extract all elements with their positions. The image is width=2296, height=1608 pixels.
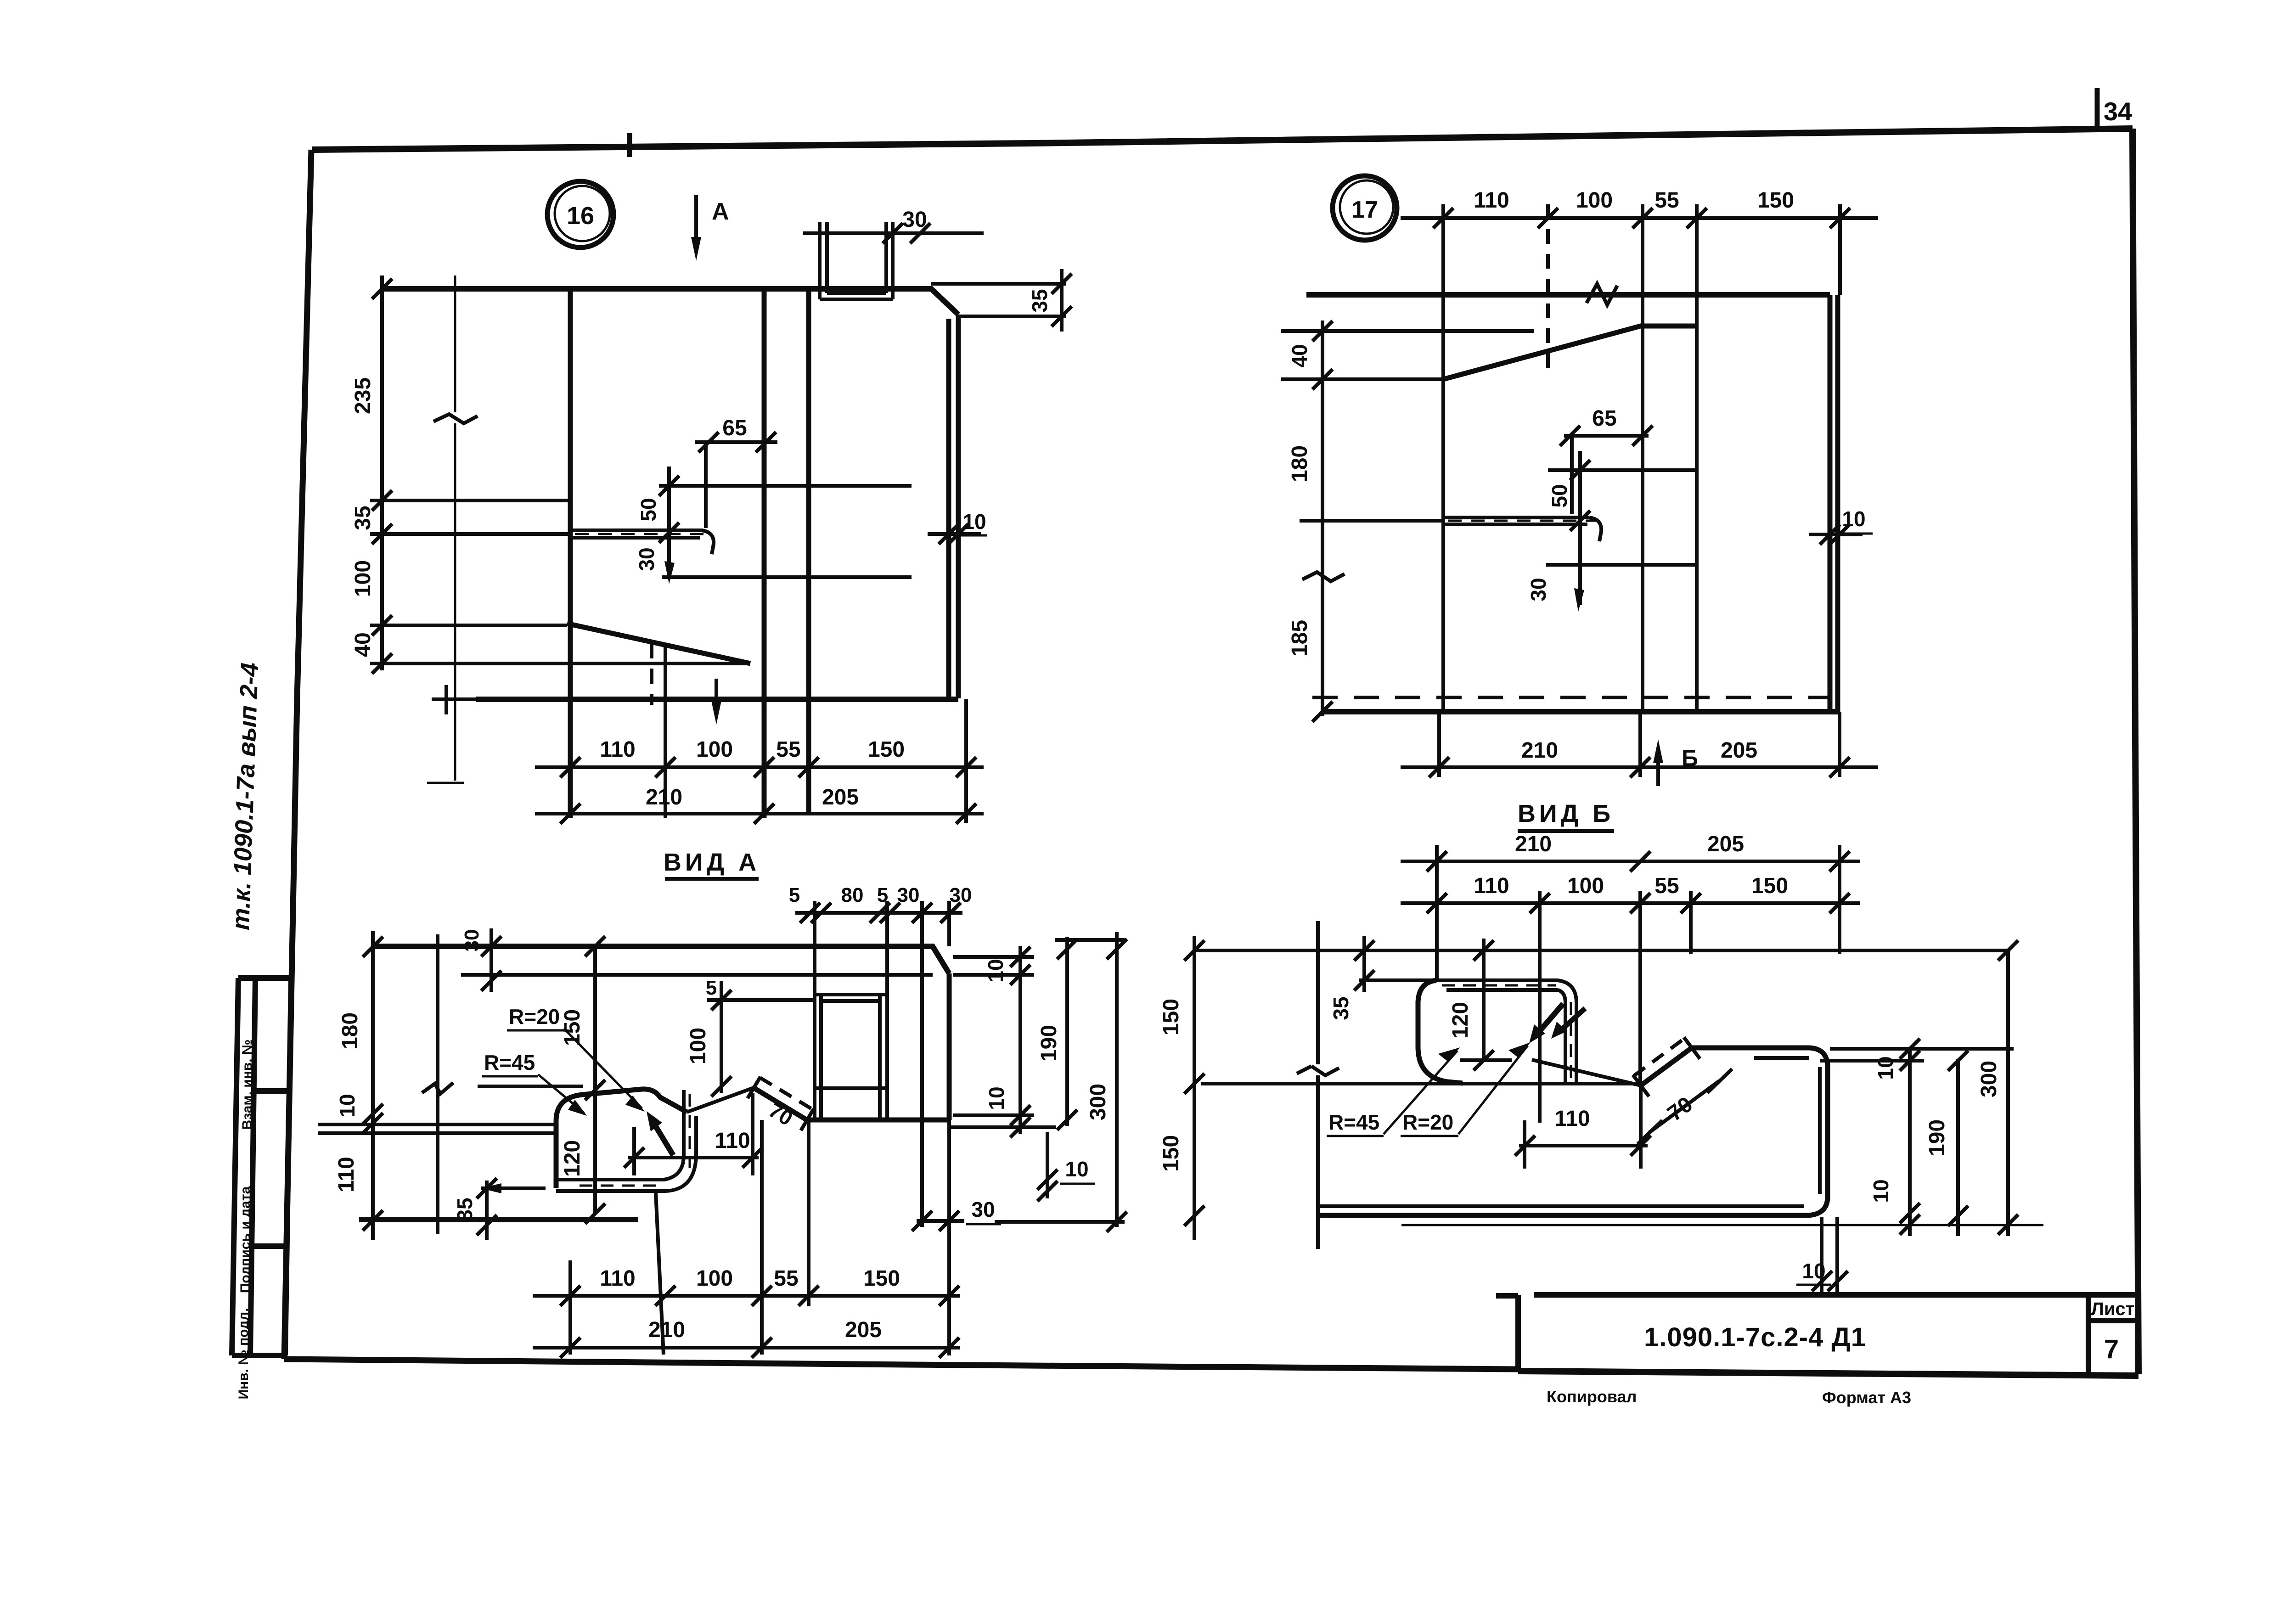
svg-text:65: 65 [722,416,747,440]
svg-text:100: 100 [686,1028,710,1064]
svg-text:ВИД Б: ВИД Б [1518,800,1614,827]
svg-text:10: 10 [1065,1157,1088,1181]
svg-text:100: 100 [696,737,733,762]
svg-text:65: 65 [1592,406,1616,431]
svg-text:110: 110 [600,1266,635,1291]
svg-text:100: 100 [1567,874,1604,898]
svg-text:210: 210 [1521,738,1558,763]
svg-text:55: 55 [1654,874,1679,898]
svg-text:R=45: R=45 [484,1051,535,1074]
svg-text:30: 30 [461,929,483,952]
svg-text:100: 100 [696,1266,733,1291]
svg-text:10: 10 [1869,1179,1893,1203]
svg-text:Копировал: Копировал [1547,1387,1637,1406]
svg-text:40: 40 [1288,344,1311,367]
svg-text:30: 30 [950,884,972,906]
svg-text:Б: Б [1682,745,1698,771]
svg-text:R=20: R=20 [1402,1110,1453,1134]
svg-text:150: 150 [863,1266,900,1291]
svg-text:10: 10 [1802,1259,1825,1283]
svg-text:150: 150 [1757,188,1794,213]
svg-text:16: 16 [567,202,594,230]
svg-text:50: 50 [1548,484,1571,507]
svg-text:10: 10 [985,1086,1008,1110]
svg-text:120: 120 [560,1140,585,1177]
svg-text:30: 30 [971,1198,995,1221]
svg-text:5: 5 [789,884,800,906]
svg-text:1.090.1-7с.2-4 Д1: 1.090.1-7с.2-4 Д1 [1644,1322,1866,1352]
svg-text:Лист: Лист [2091,1299,2135,1319]
svg-text:110: 110 [1474,874,1509,898]
svg-text:110: 110 [334,1157,359,1192]
svg-text:10: 10 [335,1094,359,1117]
svg-text:Взам. инв. №: Взам. инв. № [240,1040,255,1130]
svg-text:55: 55 [1654,188,1679,213]
svg-text:Инв. № подл.: Инв. № подл. [236,1308,251,1399]
svg-text:ВИД А: ВИД А [664,849,760,876]
svg-text:205: 205 [822,785,859,810]
svg-text:100: 100 [351,560,375,597]
svg-text:300: 300 [1977,1061,2001,1097]
svg-text:210: 210 [1515,832,1552,856]
svg-text:35: 35 [453,1198,477,1221]
svg-text:190: 190 [1925,1119,1949,1156]
svg-text:150: 150 [560,1009,585,1046]
svg-text:R=20: R=20 [509,1005,560,1029]
svg-text:40: 40 [351,632,375,657]
svg-text:30: 30 [1526,578,1550,601]
svg-text:190: 190 [1037,1025,1061,1062]
svg-text:10: 10 [962,510,986,534]
svg-text:50: 50 [636,498,660,521]
svg-text:205: 205 [1721,738,1757,763]
svg-text:205: 205 [1707,832,1744,856]
svg-text:180: 180 [338,1012,362,1049]
svg-text:55: 55 [774,1266,798,1291]
svg-text:A: A [712,198,729,225]
svg-text:210: 210 [646,785,682,810]
svg-text:100: 100 [1576,188,1613,213]
svg-text:205: 205 [845,1318,882,1342]
svg-text:30: 30 [635,547,658,571]
svg-text:210: 210 [648,1318,685,1342]
svg-text:10: 10 [984,959,1007,982]
svg-text:30: 30 [902,208,927,232]
svg-text:35: 35 [351,506,375,530]
svg-text:150: 150 [1751,874,1788,898]
svg-text:5: 5 [706,977,717,999]
svg-text:110: 110 [600,737,635,762]
svg-text:120: 120 [1448,1002,1473,1039]
svg-text:110: 110 [1474,188,1509,213]
svg-text:7: 7 [2104,1334,2119,1364]
svg-text:17: 17 [1351,197,1378,223]
svg-text:30: 30 [897,884,920,906]
svg-text:235: 235 [351,377,375,414]
svg-text:300: 300 [1086,1084,1110,1120]
svg-text:Формат А3: Формат А3 [1822,1388,1911,1407]
svg-text:R=45: R=45 [1328,1110,1379,1134]
svg-text:10: 10 [1874,1056,1897,1079]
svg-text:110: 110 [715,1129,750,1153]
svg-text:34: 34 [2104,97,2132,126]
svg-text:150: 150 [868,737,905,762]
svg-text:150: 150 [1159,999,1183,1035]
svg-text:110: 110 [1554,1107,1590,1131]
svg-text:35: 35 [1329,996,1353,1020]
svg-text:180: 180 [1288,445,1312,482]
svg-text:55: 55 [776,737,800,762]
svg-text:35: 35 [1028,289,1052,312]
svg-text:185: 185 [1288,620,1312,657]
svg-text:150: 150 [1159,1135,1183,1172]
svg-text:Подпись и дата: Подпись и дата [238,1186,253,1293]
svg-text:10: 10 [1842,507,1865,531]
svg-text:80: 80 [841,884,864,906]
